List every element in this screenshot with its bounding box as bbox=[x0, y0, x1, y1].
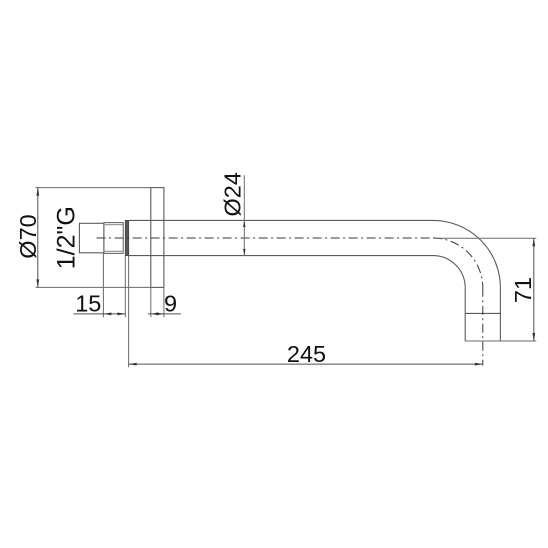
dimension 15: extension lines bbox=[103, 253, 125, 317]
dimension Ø24: label bbox=[220, 172, 246, 216]
svg-text:Ø70: Ø70 bbox=[15, 214, 41, 258]
dimension 245: label bbox=[287, 341, 326, 367]
svg-text:1/2"G: 1/2"G bbox=[53, 206, 81, 269]
dimension Ø24: leader line with arrows bbox=[243, 175, 245, 255]
label 1/2"G bbox=[53, 206, 81, 269]
dimension Ø70: extension lines bbox=[36, 188, 151, 288]
svg-text:9: 9 bbox=[164, 291, 177, 317]
dimension 9: label bbox=[164, 291, 177, 317]
vertical drop tube bbox=[465, 288, 500, 341]
svg-text:71: 71 bbox=[510, 277, 536, 303]
dimension 15: label bbox=[75, 291, 101, 317]
end cap joint line bbox=[465, 312, 500, 314]
centerline elbow arc (dash-dot) bbox=[433, 238, 483, 288]
svg-text:245: 245 bbox=[287, 341, 326, 367]
dimension 71: extension lines bbox=[434, 238, 536, 341]
elbow outer arc bbox=[433, 220, 500, 287]
tube bottom edge bbox=[129, 255, 433, 257]
dimension 71: label bbox=[510, 277, 536, 303]
dimension Ø70: label bbox=[15, 214, 41, 258]
dimension 245: left extension line bbox=[128, 256, 130, 368]
tube top edge bbox=[129, 219, 433, 221]
dimension 15: dimension line with arrows bbox=[74, 313, 126, 316]
dimension 71: dimension line with arrows bbox=[532, 238, 535, 341]
nipple body (1/2"G connector) bbox=[79, 223, 104, 253]
washer / seal bbox=[125, 220, 128, 255]
elbow inner arc bbox=[433, 256, 465, 288]
dimension 9: extension lines bbox=[151, 287, 164, 317]
svg-text:15: 15 bbox=[75, 291, 101, 317]
wall flange plate bbox=[151, 188, 164, 288]
dimension Ø70: dimension line with arrows bbox=[36, 188, 39, 288]
centerline horizontal (dash-dot) bbox=[97, 237, 436, 239]
threaded section bbox=[104, 223, 123, 254]
dimension 9: dimension line with arrows bbox=[148, 313, 181, 316]
svg-text:Ø24: Ø24 bbox=[220, 172, 246, 216]
dimension 245: dimension line with arrows bbox=[129, 363, 483, 366]
centerline vertical (dash-dot) bbox=[482, 288, 484, 366]
